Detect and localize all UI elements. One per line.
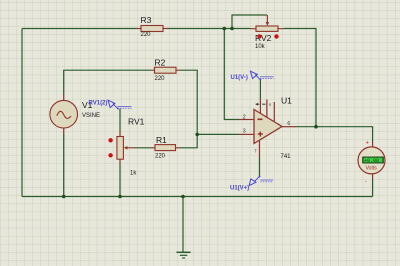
ground <box>177 197 191 259</box>
wire: RV2 right to output vertical <box>284 29 317 127</box>
junction node: pin3 input junction <box>195 133 199 137</box>
probe RV1(2) <box>89 100 132 109</box>
svg-text:R3: R3 <box>141 15 152 25</box>
wire: V1 top to R2 left <box>64 70 151 94</box>
resistor R2 <box>151 58 181 83</box>
junction node: ground stem on rail <box>181 195 185 199</box>
wire: top rail left segment to R3 <box>22 28 136 30</box>
svg-text:RV1: RV1 <box>128 117 145 127</box>
wire: RV1 top probe wire <box>119 109 121 132</box>
wire: op-amp pin4 probe wire <box>259 158 261 176</box>
probe U1(V+) <box>230 176 273 192</box>
svg-text:R1: R1 <box>156 135 167 145</box>
probe U1(V-) <box>231 71 274 81</box>
svg-text:RV1(2): RV1(2) <box>89 101 108 107</box>
wire: V1 bottom to ground rail <box>63 134 65 197</box>
svg-text:10k: 10k <box>255 44 266 50</box>
wire: bottom ground rail <box>22 196 373 198</box>
svg-text:+0.00: +0.00 <box>364 158 379 164</box>
svg-text:R2: R2 <box>155 58 166 68</box>
svg-text:2: 2 <box>243 114 246 120</box>
svg-text:RV2: RV2 <box>255 33 272 43</box>
wire: voltmeter bottom to ground rail <box>372 180 374 197</box>
wire: left vertical rail <box>21 29 23 197</box>
svg-text:220: 220 <box>155 76 166 82</box>
svg-text:1k: 1k <box>130 171 137 177</box>
op-amp U1 <box>239 96 297 161</box>
voltmeter Volts <box>358 141 385 186</box>
wire: RV1 bottom to ground rail <box>119 165 121 197</box>
wire: RV1 wiper to R1 left <box>135 147 151 149</box>
resistor R1 <box>151 135 180 160</box>
svg-text:-: - <box>365 180 367 186</box>
svg-text:U1(V+): U1(V+) <box>230 186 249 192</box>
svg-text:s: s <box>269 102 271 107</box>
svg-text:+: + <box>366 141 370 147</box>
wire: R1 right to junction <box>180 134 198 147</box>
junction node: RV1 bottom on ground rail <box>118 195 122 199</box>
junction node: output junction <box>314 125 318 129</box>
svg-text:6: 6 <box>287 121 290 127</box>
junction node: V1 bottom on ground rail <box>62 195 66 199</box>
wire: op-amp output to voltmeter <box>296 127 373 142</box>
potentiometer RV1 <box>108 117 144 177</box>
svg-text:U1: U1 <box>281 96 292 106</box>
wire: RV2 wiper loop to pot arm <box>232 15 267 29</box>
junction node: top rail wiper tap <box>230 27 234 31</box>
svg-text:VSINE: VSINE <box>82 113 100 119</box>
junction node: top rail feedback tap <box>223 27 227 31</box>
svg-text:3: 3 <box>243 128 246 134</box>
potentiometer RV2 <box>251 15 284 50</box>
svg-text:Volts: Volts <box>366 166 378 172</box>
svg-text:220: 220 <box>141 32 152 38</box>
wire: R2 right down to pin3 junction <box>180 70 197 134</box>
wire: junction to op-amp pin 3 <box>197 133 238 135</box>
svg-text:741: 741 <box>281 154 292 160</box>
wire: feedback rail to op-amp pin 2 <box>224 29 239 120</box>
svg-text:U1(V-): U1(V-) <box>231 75 248 81</box>
svg-text:220: 220 <box>155 154 166 160</box>
wire: op-amp pin7 probe wire <box>259 80 261 100</box>
resistor R3 <box>136 15 168 38</box>
source V1 VSINE <box>50 94 100 134</box>
wire: R3 right to RV2 left <box>168 28 251 30</box>
